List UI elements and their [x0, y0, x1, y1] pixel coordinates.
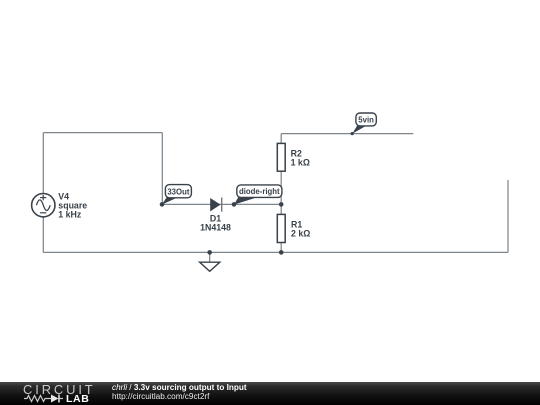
- wire R1 bottom stub: [280, 243, 282, 253]
- node diode-right dot: [232, 202, 237, 207]
- label D1 1N4148: [200, 213, 231, 232]
- ground: [200, 262, 220, 271]
- diode D1: [210, 198, 222, 212]
- CircuitLab logo: [22, 383, 102, 404]
- svg-text:diode-right: diode-right: [239, 187, 280, 196]
- logo resistor zigzag: [24, 396, 51, 402]
- resistor R2: [277, 143, 285, 171]
- node ground dot: [207, 250, 212, 255]
- svg-text:1N4148: 1N4148: [200, 223, 231, 233]
- footer bar: [0, 382, 540, 405]
- svg-text:2 kΩ: 2 kΩ: [291, 229, 310, 239]
- resistor R1: [277, 214, 285, 242]
- svg-text:1 kHz: 1 kHz: [58, 210, 82, 220]
- wire ground stub: [209, 252, 211, 262]
- footer title text: [112, 383, 247, 392]
- wire 5vin horizontal: [281, 133, 413, 135]
- node 5vin dot: [351, 132, 354, 135]
- wire top-left loop horizontal: [43, 132, 162, 134]
- node R branch junction dot: [279, 202, 284, 207]
- label R1 2 kOhm: [291, 220, 310, 239]
- wire left vertical above V4: [42, 133, 44, 194]
- flag 5vin: [352, 113, 376, 134]
- wire left loop right vertical: [161, 133, 163, 205]
- wire R1 top stub: [280, 204, 282, 214]
- node 33Out dot: [160, 202, 165, 207]
- svg-text:1 kΩ: 1 kΩ: [291, 158, 310, 168]
- wire R2 top stub: [280, 134, 282, 144]
- label R2 1 kOhm: [291, 149, 310, 168]
- wire right vertical: [507, 180, 509, 252]
- wire main horizontal node 33Out to diode-right branch: [162, 203, 281, 205]
- svg-text:33Out: 33Out: [167, 187, 189, 196]
- flag 33Out: [162, 185, 192, 205]
- svg-text:5vin: 5vin: [358, 115, 374, 124]
- node R1 bottom dot: [279, 250, 284, 255]
- wire left vertical below V4: [42, 217, 44, 253]
- wire R2 bottom to node: [280, 171, 282, 204]
- logo diode: [51, 395, 59, 403]
- voltage source V4: [32, 194, 55, 217]
- wire bottom horizontal: [43, 251, 508, 253]
- footer url text: [112, 392, 209, 401]
- flag diode-right: [234, 185, 282, 205]
- label V4 square 1 kHz: [58, 192, 87, 220]
